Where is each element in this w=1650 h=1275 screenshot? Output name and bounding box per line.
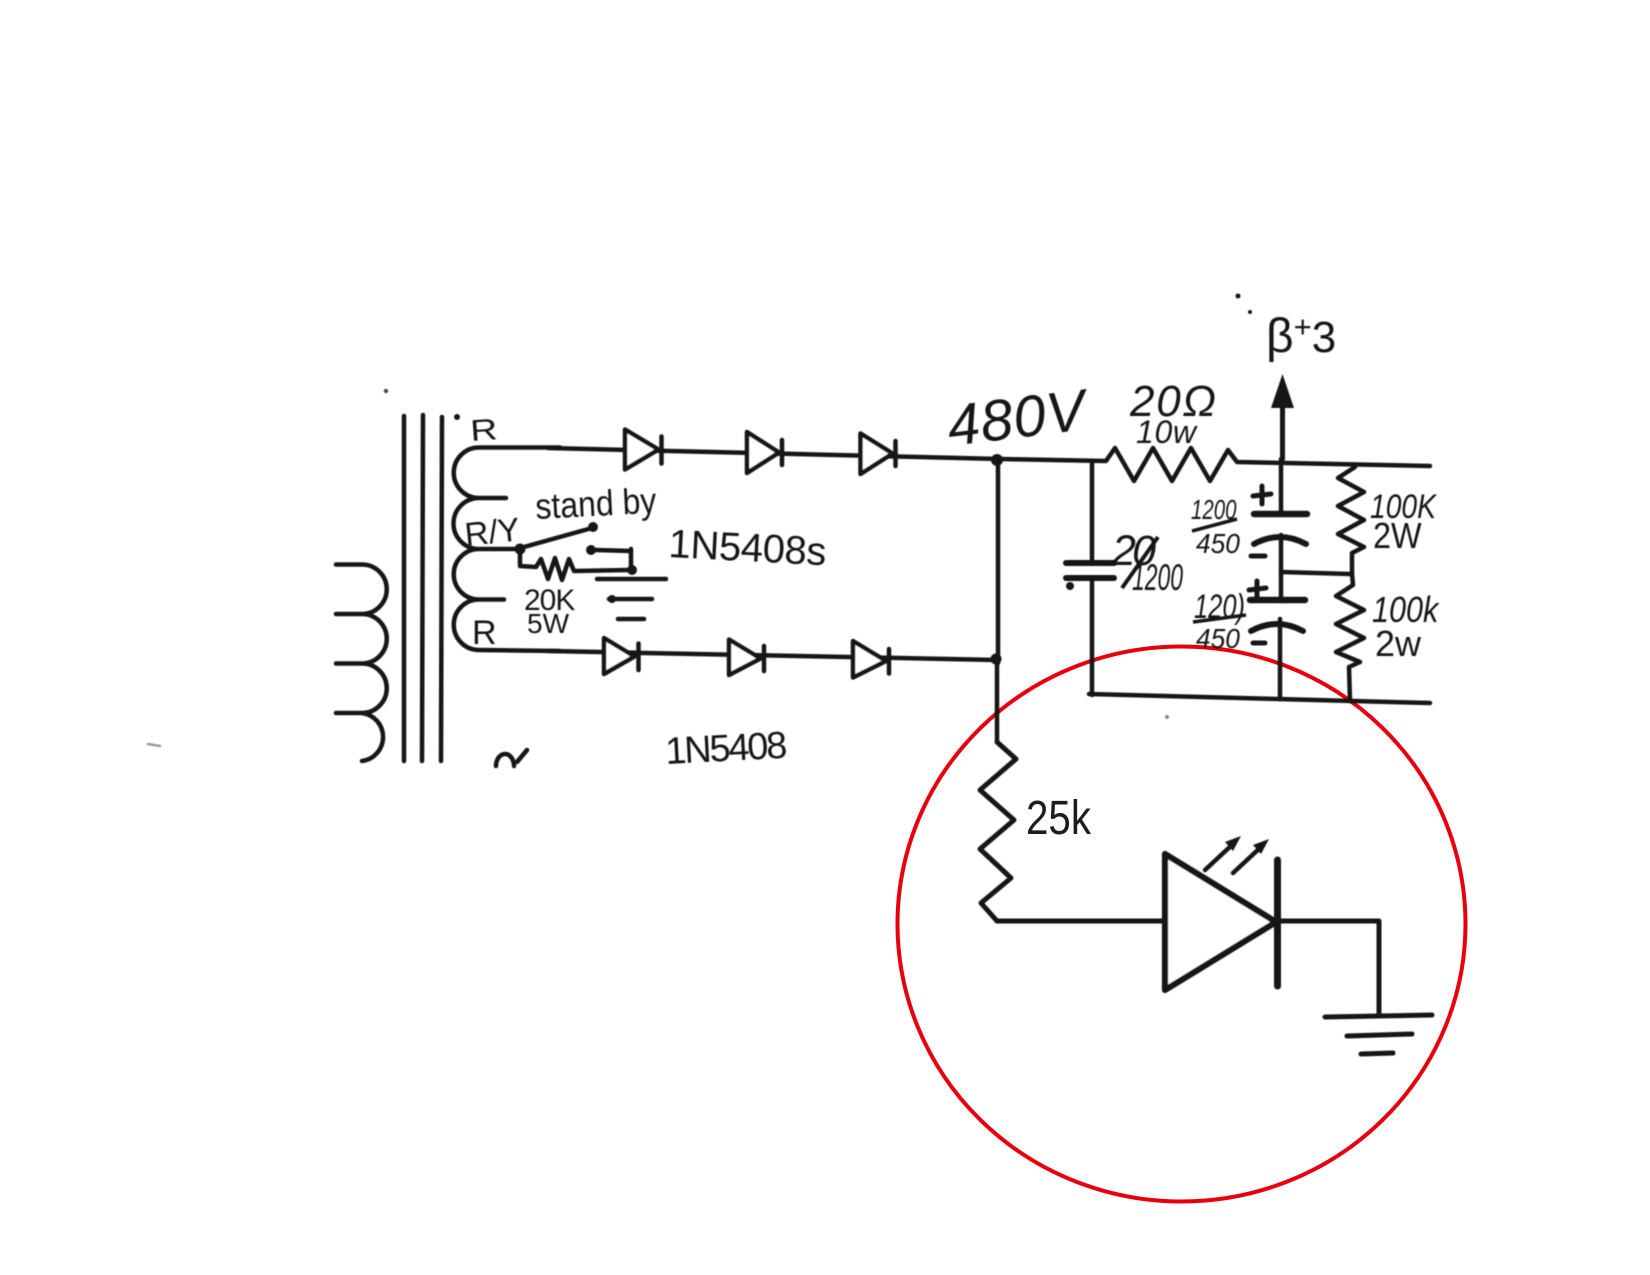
speck above B+3 [1236,294,1241,299]
wire resistor to LED anode [997,919,1163,924]
resistor 25k zigzag [980,742,1016,921]
speck below bottom rail [1165,715,1169,719]
speck near R [454,414,460,420]
transformer primary winding [336,565,387,762]
svg-text:25k: 25k [1026,792,1092,845]
svg-text:2W: 2W [1373,516,1422,556]
svg-text:1200: 1200 [1132,556,1183,598]
svg-text:R/Y: R/Y [463,510,522,553]
svg-text:450: 450 [1196,622,1240,654]
diode D3 top 1N5408 [861,434,896,475]
svg-text:R: R [472,614,497,652]
resistor R 100K 2W upper [1338,467,1364,574]
svg-text:stand by: stand by [534,481,657,527]
svg-text:480V: 480V [944,377,1094,459]
battery / bypass symbol plates [597,549,666,619]
junction dot bottom rectifier [991,654,1002,665]
resistor 20K 5W [520,553,637,580]
capacitor C 1200/450 electrolytic [1251,459,1307,601]
partial handwriting 0 cut [496,750,527,766]
ground symbol [1325,1015,1432,1054]
diode D1 top 1N5408 [625,430,662,470]
LED light arrows [1205,836,1269,873]
red highlight circle [898,647,1466,1202]
diode D4 bottom 1N5408 [604,638,639,674]
minus sign C1200 [1251,554,1265,559]
svg-text:R: R [469,413,498,448]
svg-text:450: 450 [1196,527,1240,559]
svg-text:1N5408: 1N5408 [664,725,788,773]
minus sign C120 [1253,641,1265,646]
node 480V vertical wire [996,459,1001,663]
resistor 20ohm 10W zigzag [1000,448,1430,481]
svg-text:2w: 2w [1375,623,1422,664]
diode D2 top 1N5408 [747,432,782,473]
wire LED cathode to ground [1280,921,1379,1014]
wire 480V node down to LED resistor [995,663,1000,742]
transformer core [404,415,442,761]
wire bottom (R winding to rectifier string) [548,651,996,660]
svg-text:β+3: β+3 [1266,309,1336,363]
node B+3 arrow [1271,374,1294,459]
capacitor C 120/450 electrolytic [1249,581,1305,699]
svg-text:10w: 10w [1136,414,1198,450]
svg-text:1N5408s: 1N5408s [668,522,828,574]
plus sign C120 [1249,581,1266,597]
diode D5 bottom 1N5408 [729,640,764,676]
resistor R 100K 2W lower [1336,574,1364,701]
speck top left of R [384,389,388,393]
speck bottom left [148,744,160,746]
capacitor C 20/1200 [1066,461,1114,695]
wire top (R winding to rectifier string) [548,448,1000,459]
wire bottom rail [1089,694,1430,703]
svg-text:5W: 5W [527,608,570,639]
plus sign C1200 [1253,486,1271,504]
wire mid junction caps to resistors [1281,572,1350,574]
standby switch [515,522,632,555]
diode D6 bottom 1N5408 [853,641,889,678]
LED D7 [1165,854,1278,990]
transformer secondary winding [454,448,560,652]
speck above B+3 second [1248,310,1252,314]
junction dot 480V [991,454,1003,466]
